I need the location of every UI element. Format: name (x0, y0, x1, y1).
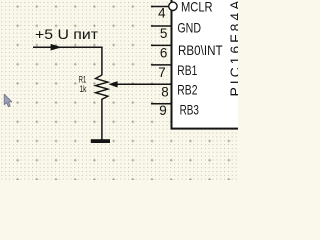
svg-text:1k: 1k (80, 84, 87, 94)
svg-text:6: 6 (160, 45, 167, 60)
svg-text:+5 U пит: +5 U пит (35, 26, 99, 42)
svg-text:PIC16F84A: PIC16F84A (227, 0, 238, 97)
svg-text:9: 9 (159, 103, 166, 118)
svg-text:GND: GND (177, 20, 201, 35)
svg-text:RB2: RB2 (177, 82, 197, 97)
svg-text:5: 5 (160, 26, 167, 41)
svg-text:RB1: RB1 (177, 63, 197, 78)
svg-text:RB0\INT: RB0\INT (178, 43, 223, 58)
svg-text:MCLR: MCLR (181, 0, 213, 15)
svg-text:8: 8 (161, 85, 168, 100)
svg-text:4: 4 (158, 5, 166, 20)
svg-text:7: 7 (158, 65, 165, 80)
svg-text:RB3: RB3 (180, 102, 199, 117)
